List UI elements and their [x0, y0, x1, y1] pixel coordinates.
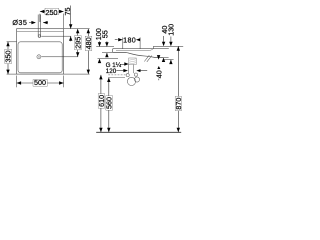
- svg-text:350: 350: [4, 51, 13, 63]
- svg-text:40: 40: [154, 70, 163, 78]
- svg-text:870: 870: [174, 98, 183, 110]
- svg-text:Ø35: Ø35: [12, 18, 27, 27]
- svg-text:480: 480: [84, 37, 93, 49]
- svg-text:250: 250: [46, 8, 58, 17]
- svg-text:560: 560: [105, 97, 114, 109]
- svg-text:180: 180: [123, 35, 136, 44]
- svg-text:55: 55: [100, 30, 109, 38]
- svg-text:500: 500: [34, 78, 46, 87]
- svg-text:130: 130: [166, 24, 175, 36]
- svg-text:75: 75: [63, 8, 72, 16]
- svg-text:295: 295: [74, 37, 83, 49]
- svg-text:120: 120: [106, 68, 117, 75]
